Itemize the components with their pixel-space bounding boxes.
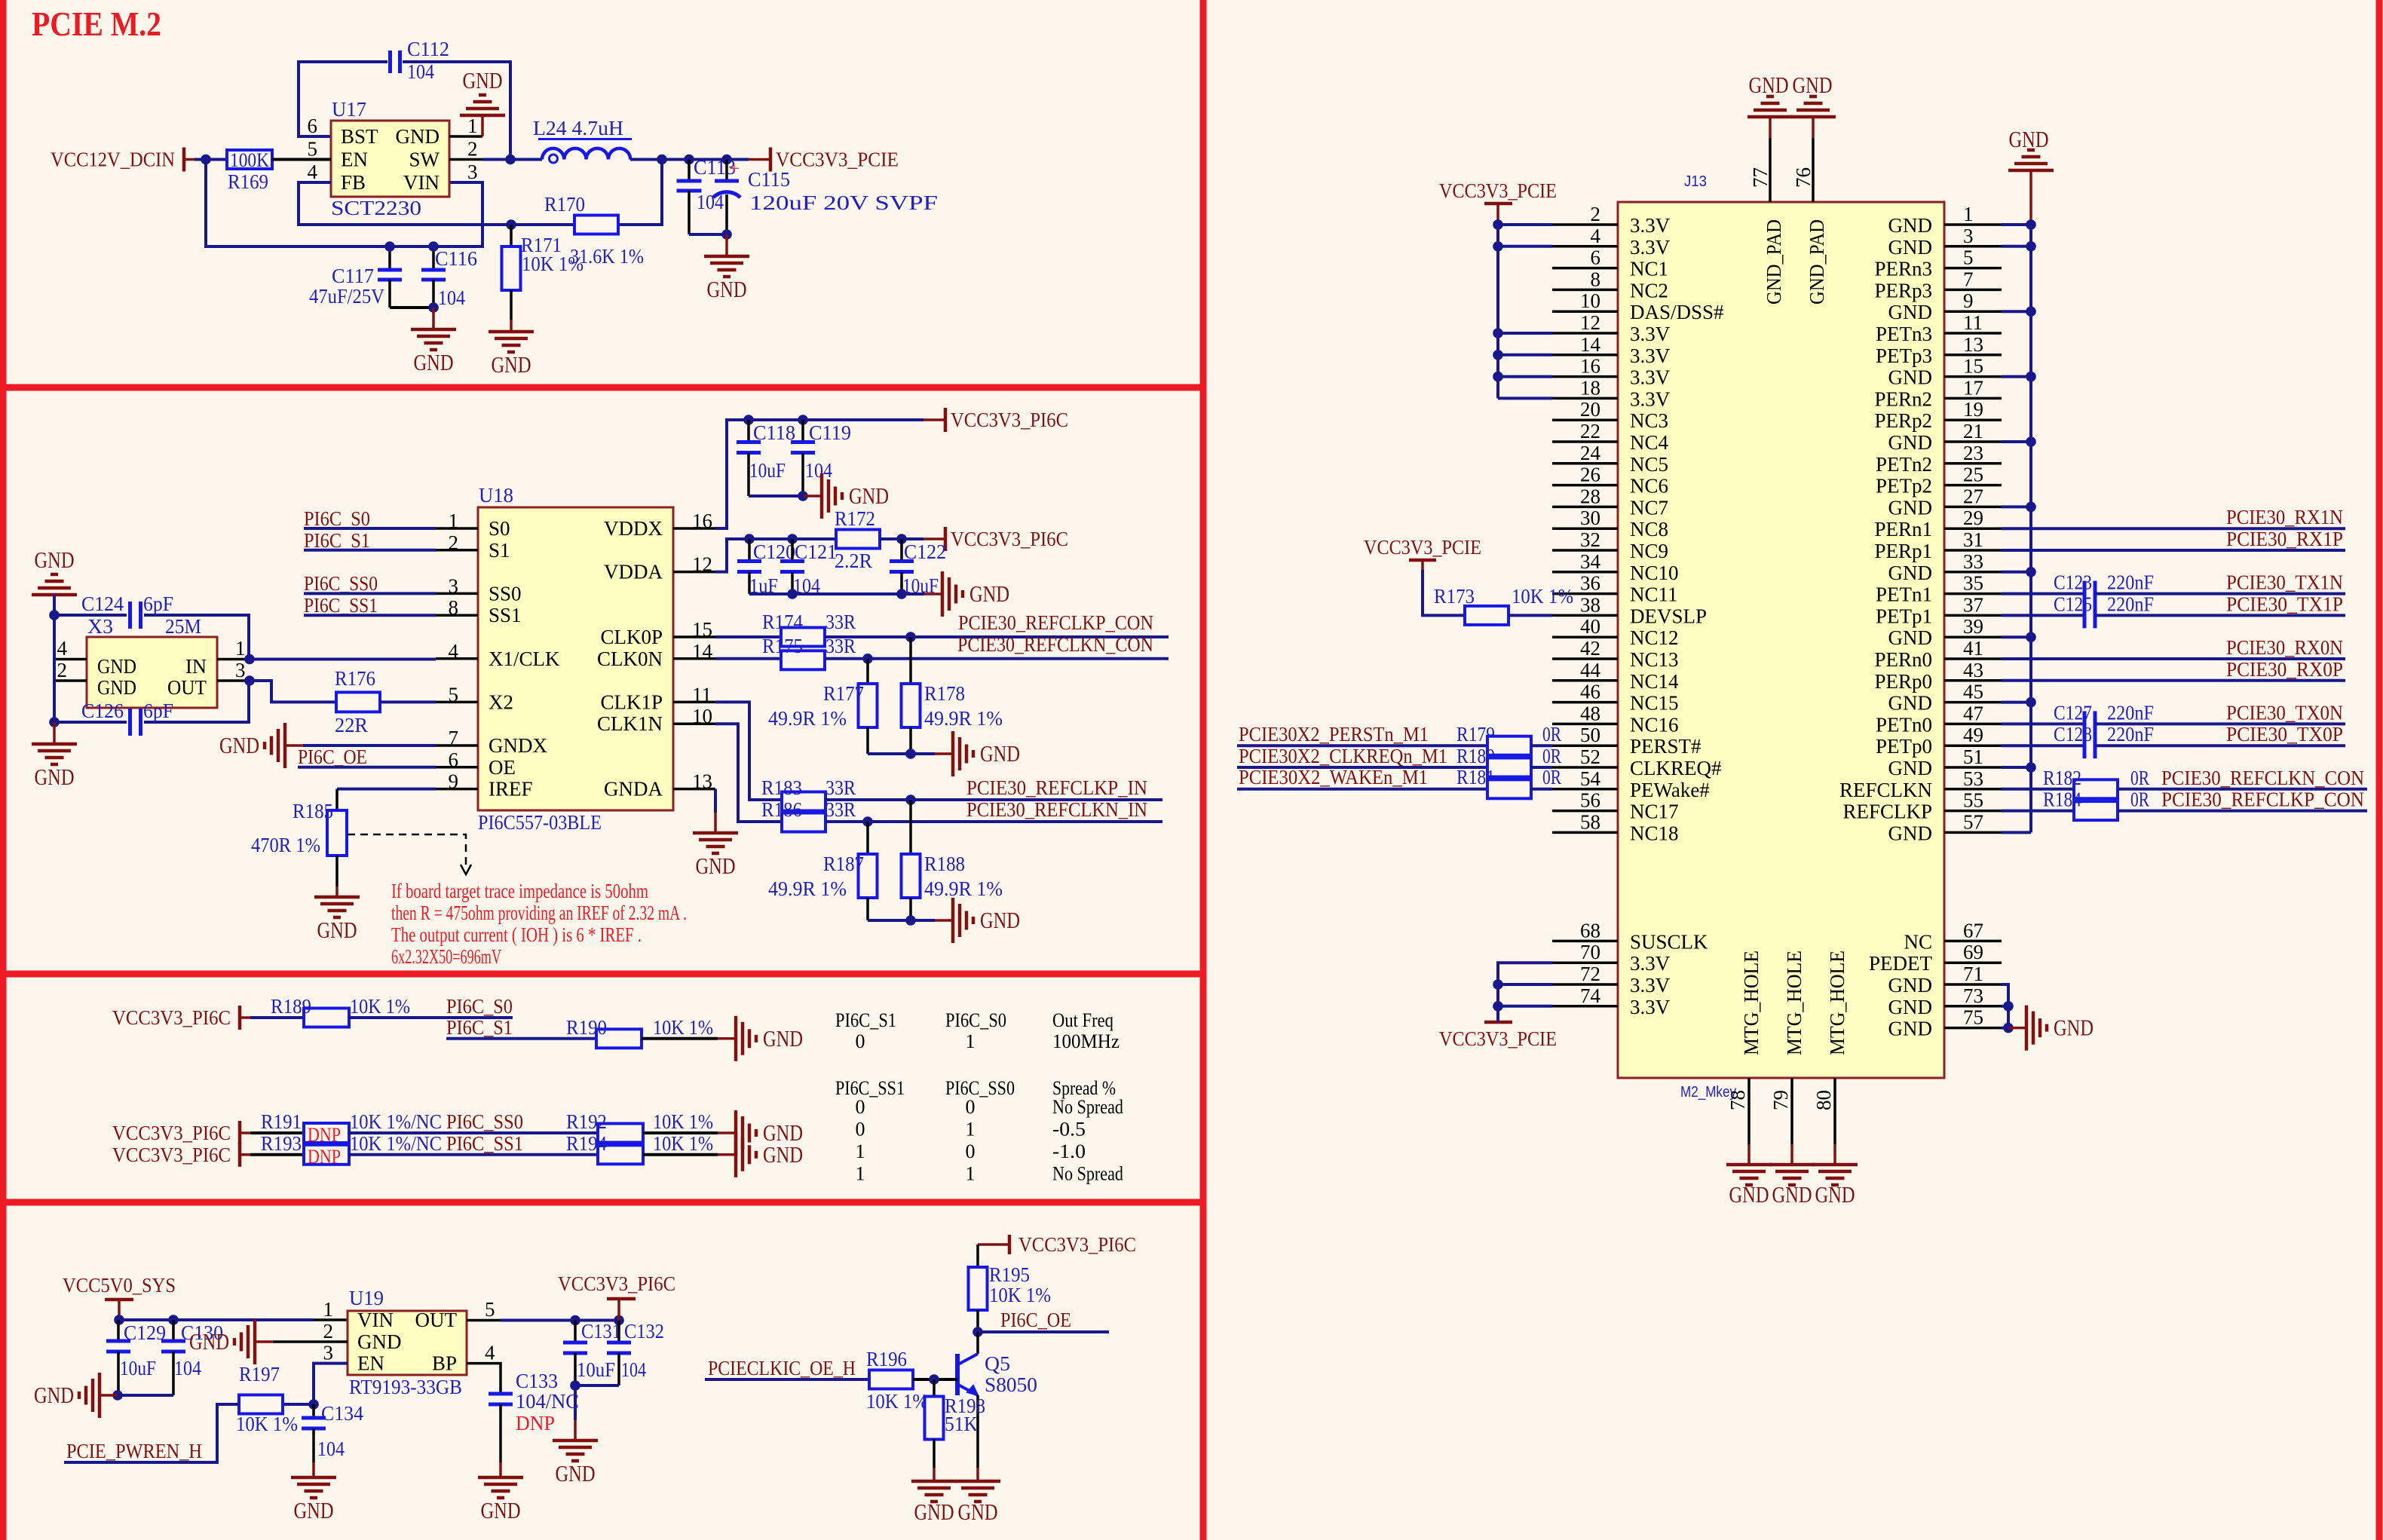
svg-text:R170: R170	[544, 193, 585, 216]
svg-text:C128: C128	[2054, 723, 2092, 746]
svg-text:15: 15	[692, 618, 712, 641]
wire 3.3V bus top	[1496, 225, 1499, 398]
svg-text:PERp0: PERp0	[1874, 670, 1932, 693]
wire gnd bus bottom right	[2002, 984, 2008, 1028]
svg-text:DEVSLP: DEVSLP	[1630, 605, 1707, 627]
svg-text:C119: C119	[809, 421, 851, 444]
wire OUT rail	[467, 1319, 501, 1322]
svg-text:FB: FB	[341, 171, 366, 194]
net PCIE30_RX0N	[2002, 657, 2345, 660]
wire X1 to U18	[250, 658, 436, 661]
svg-text:1: 1	[966, 1163, 976, 1185]
svg-text:NC11: NC11	[1630, 583, 1678, 606]
svg-text:104: 104	[174, 1357, 201, 1379]
svg-text:14: 14	[692, 640, 713, 663]
svg-text:C115: C115	[748, 168, 790, 191]
node FB divider	[506, 219, 516, 230]
svg-text:7: 7	[1963, 268, 1974, 290]
svg-text:10: 10	[1580, 289, 1600, 312]
wire filter gnd rail	[749, 592, 924, 595]
svg-text:3: 3	[449, 574, 459, 597]
power port VCC3V3_PI6C at VDDA	[923, 537, 945, 540]
svg-text:GND: GND	[707, 276, 747, 302]
svg-text:NC: NC	[1904, 930, 1932, 953]
svg-text:1: 1	[966, 1030, 976, 1052]
resistor R191 DNP	[304, 1123, 349, 1143]
svg-text:10uF: 10uF	[749, 459, 786, 482]
svg-text:6pF: 6pF	[143, 700, 173, 722]
svg-text:33R: 33R	[825, 776, 856, 799]
svg-text:48: 48	[1580, 702, 1600, 724]
svg-text:NC4: NC4	[1630, 431, 1669, 454]
svg-text:NC14: NC14	[1630, 670, 1679, 693]
svg-text:56: 56	[1580, 789, 1600, 812]
svg-text:4: 4	[57, 637, 68, 660]
svg-text:OUT: OUT	[167, 676, 207, 699]
svg-text:0R: 0R	[2130, 767, 2149, 789]
wire CLK1P to R183	[715, 702, 783, 800]
svg-text:R192: R192	[566, 1110, 607, 1133]
svg-text:6: 6	[308, 115, 318, 137]
svg-text:C129: C129	[124, 1321, 166, 1344]
svg-text:PI6C557-03BLE: PI6C557-03BLE	[478, 811, 602, 834]
ground below R198	[933, 1468, 936, 1481]
svg-text:2.2R: 2.2R	[835, 550, 872, 572]
resistor R182 net PCIE30_REFCLKN_CON	[2002, 788, 2074, 791]
svg-text:76: 76	[1792, 167, 1815, 188]
node PI6C_OE	[972, 1327, 983, 1337]
svg-text:37: 37	[1963, 593, 1983, 616]
svg-text:PI6C_S1: PI6C_S1	[304, 529, 370, 552]
svg-text:16: 16	[692, 510, 712, 532]
svg-text:6: 6	[1591, 246, 1601, 269]
capacitor C116	[432, 246, 435, 270]
svg-text:3.3V: 3.3V	[1630, 236, 1671, 259]
capacitor C126	[54, 721, 127, 724]
svg-text:R183: R183	[761, 776, 802, 799]
svg-text:NC9: NC9	[1630, 540, 1668, 562]
svg-text:R187: R187	[823, 853, 864, 875]
svg-text:GND: GND	[1888, 366, 1933, 389]
wire L24 to VCC3V3_PCIE	[630, 158, 749, 161]
capacitor C128 net PCIE30_TX0P	[2002, 744, 2084, 747]
capacitor C112	[388, 51, 392, 73]
svg-text:1: 1	[235, 637, 246, 660]
svg-text:PCIE30_TX1N: PCIE30_TX1N	[2226, 571, 2343, 594]
svg-text:R175: R175	[762, 635, 803, 657]
svg-text:10K 1%: 10K 1%	[989, 1284, 1051, 1306]
connector J13 M2_Mkey body	[1618, 202, 1944, 1078]
svg-text:4: 4	[449, 640, 459, 663]
svg-text:VDDA: VDDA	[604, 561, 663, 583]
svg-text:C126: C126	[81, 700, 124, 722]
svg-text:C131: C131	[581, 1320, 621, 1343]
svg-text:10K 1%: 10K 1%	[236, 1413, 298, 1435]
svg-text:VCC3V3_PI6C: VCC3V3_PI6C	[112, 1006, 231, 1029]
svg-text:8: 8	[1591, 268, 1601, 290]
svg-text:S8050: S8050	[985, 1373, 1037, 1396]
svg-text:S0: S0	[489, 517, 510, 540]
svg-text:X2: X2	[489, 690, 513, 713]
svg-text:NC8: NC8	[1630, 518, 1668, 540]
svg-text:3.3V: 3.3V	[1630, 952, 1671, 975]
resistor R190	[596, 1029, 642, 1048]
wire output sense drop	[617, 160, 662, 225]
svg-text:GND: GND	[696, 853, 736, 879]
svg-text:GND: GND	[97, 655, 136, 678]
svg-text:EN: EN	[357, 1352, 384, 1375]
svg-text:6pF: 6pF	[143, 592, 173, 615]
svg-text:35: 35	[1963, 572, 1983, 595]
ground below crystal	[53, 722, 56, 744]
svg-text:GND: GND	[34, 1382, 74, 1408]
svg-text:5: 5	[1963, 246, 1974, 269]
svg-text:The output current ( IOH ) is: The output current ( IOH ) is 6 * IREF .	[391, 923, 642, 946]
svg-text:104: 104	[317, 1437, 345, 1460]
svg-text:73: 73	[1963, 984, 1983, 1007]
svg-text:PI6C_S1: PI6C_S1	[835, 1009, 896, 1031]
svg-text:PI6C_SS0: PI6C_SS0	[304, 572, 378, 595]
svg-text:DAS/DSS#: DAS/DSS#	[1630, 301, 1724, 323]
svg-text:VCC3V3_PI6C: VCC3V3_PI6C	[1018, 1233, 1136, 1256]
wire to R191	[250, 1131, 304, 1134]
svg-text:33R: 33R	[825, 635, 856, 657]
svg-text:IN: IN	[185, 655, 207, 678]
svg-text:PEWake#: PEWake#	[1630, 779, 1710, 801]
ground below C115	[725, 234, 728, 256]
svg-text:CLKREQ#: CLKREQ#	[1630, 757, 1722, 779]
svg-text:VCC3V3_PCIE: VCC3V3_PCIE	[1439, 1027, 1557, 1050]
svg-text:51K: 51K	[945, 1413, 978, 1435]
ground below C134	[312, 1462, 315, 1477]
svg-text:3: 3	[467, 161, 478, 183]
svg-text:X1/CLK: X1/CLK	[489, 648, 560, 670]
svg-text:10K 1%: 10K 1%	[653, 1110, 713, 1133]
svg-text:PETn2: PETn2	[1876, 453, 1932, 476]
svg-text:PERn3: PERn3	[1874, 258, 1932, 280]
capacitor C124	[54, 614, 127, 617]
ground below R171	[510, 320, 513, 332]
svg-text:39: 39	[1963, 615, 1983, 638]
capacitor C122	[900, 539, 903, 561]
svg-text:13: 13	[1963, 333, 1983, 356]
svg-text:2: 2	[57, 659, 68, 681]
svg-text:33R: 33R	[825, 798, 856, 821]
wire crystal left vertical	[53, 595, 56, 722]
ground right of R192	[718, 1131, 736, 1134]
svg-text:-1.0: -1.0	[1052, 1140, 1086, 1162]
IC U18 PI6C557-03BLE	[478, 507, 673, 810]
svg-text:12: 12	[1580, 311, 1600, 334]
svg-text:22: 22	[1580, 420, 1600, 442]
svg-text:PCIE30_RX1P: PCIE30_RX1P	[2226, 528, 2343, 550]
svg-text:42: 42	[1580, 637, 1600, 660]
capacitor C134	[312, 1404, 315, 1418]
svg-text:GND: GND	[1888, 496, 1933, 519]
svg-text:GND: GND	[1888, 301, 1933, 323]
svg-text:PETp3: PETp3	[1876, 344, 1932, 367]
ground right of C118 rail	[804, 494, 822, 498]
svg-text:17: 17	[1963, 376, 1983, 399]
svg-text:PI6C_S0: PI6C_S0	[945, 1009, 1006, 1031]
svg-text:36: 36	[1580, 572, 1600, 595]
svg-text:10K 1%: 10K 1%	[653, 1016, 713, 1039]
svg-text:GND: GND	[219, 732, 259, 758]
svg-text:74: 74	[1580, 984, 1601, 1007]
svg-text:NC5: NC5	[1630, 453, 1668, 476]
svg-text:21: 21	[1963, 420, 1983, 442]
svg-text:2: 2	[1591, 203, 1601, 225]
wire X3 pin1 stub	[217, 658, 250, 661]
wire caps bottom rail	[390, 306, 433, 309]
svg-text:0R: 0R	[1542, 766, 1561, 788]
svg-text:34: 34	[1580, 550, 1601, 573]
wire BP to C133	[467, 1364, 501, 1394]
svg-text:PETn0: PETn0	[1876, 713, 1932, 736]
capacitor C117	[388, 246, 391, 270]
resistor R195	[969, 1267, 988, 1310]
svg-text:BP: BP	[432, 1352, 457, 1375]
J13 left pins 68-74	[1552, 940, 1618, 943]
J13 bottom pins 78 79 80 MTG_HOLE	[1747, 1078, 1750, 1144]
svg-text:0: 0	[966, 1096, 976, 1118]
capacitor C125 net PCIE30_TX1P	[2002, 614, 2084, 617]
svg-text:4: 4	[1591, 225, 1601, 247]
svg-text:68: 68	[1580, 919, 1600, 941]
svg-text:NC17: NC17	[1630, 801, 1679, 823]
svg-text:47: 47	[1963, 702, 1983, 724]
svg-text:U18: U18	[479, 484, 513, 507]
svg-text:GND: GND	[414, 349, 454, 375]
svg-text:REFCLKN: REFCLKN	[1839, 779, 1932, 801]
svg-text:GND: GND	[556, 1460, 596, 1486]
ground below C131 C132	[574, 1385, 577, 1420]
resistor R186	[782, 813, 825, 832]
svg-text:GNDA: GNDA	[604, 778, 663, 801]
svg-text:0R: 0R	[1542, 723, 1561, 746]
svg-text:GND: GND	[763, 1141, 803, 1168]
svg-text:49.9R 1%: 49.9R 1%	[768, 707, 847, 730]
svg-text:VCC3V3_PI6C: VCC3V3_PI6C	[951, 528, 1068, 550]
wire caps bottom sec4	[118, 1394, 173, 1397]
svg-text:10K 1%: 10K 1%	[1512, 585, 1573, 608]
svg-text:3.3V: 3.3V	[1630, 366, 1671, 389]
resistor R177	[866, 659, 869, 684]
svg-text:VCC12V_DCIN: VCC12V_DCIN	[51, 148, 175, 171]
svg-text:R176: R176	[335, 667, 375, 690]
svg-text:6x2.32X50=696mV: 6x2.32X50=696mV	[391, 945, 501, 968]
svg-text:MTG_HOLE: MTG_HOLE	[1740, 951, 1763, 1055]
svg-text:PERp2: PERp2	[1874, 409, 1932, 432]
svg-text:VCC5V0_SYS: VCC5V0_SYS	[63, 1274, 176, 1297]
svg-text:11: 11	[1963, 311, 1983, 334]
svg-text:REFCLKP: REFCLKP	[1842, 801, 1932, 823]
svg-text:13: 13	[692, 770, 712, 793]
wire C112 branch pin6	[299, 62, 387, 136]
J13 left pins 2-58	[1552, 223, 1618, 226]
svg-text:120uF 20V SVPF: 120uF 20V SVPF	[749, 191, 938, 214]
svg-text:GND_PAD: GND_PAD	[1806, 219, 1828, 305]
svg-text:2: 2	[323, 1320, 334, 1343]
svg-text:DNP: DNP	[516, 1412, 555, 1434]
svg-text:then R = 475ohm providing an I: then R = 475ohm providing an IREF of 2.3…	[391, 902, 687, 924]
svg-text:PI6C_S1: PI6C_S1	[446, 1016, 513, 1039]
svg-text:70: 70	[1580, 941, 1600, 963]
svg-text:3.3V: 3.3V	[1630, 344, 1671, 367]
svg-text:12: 12	[692, 553, 712, 576]
svg-text:1: 1	[966, 1119, 976, 1140]
svg-text:100K: 100K	[230, 149, 269, 171]
svg-text:VCC3V3_PI6C: VCC3V3_PI6C	[112, 1122, 231, 1144]
svg-text:SS0: SS0	[489, 582, 522, 605]
wire 5V rail	[119, 1318, 314, 1321]
svg-text:51: 51	[1963, 746, 1983, 768]
svg-text:104: 104	[438, 286, 465, 309]
ground below C116 C117	[432, 308, 435, 329]
J13 right pins 67-75	[1944, 940, 2002, 943]
dashed note pointer	[348, 834, 466, 868]
svg-text:PCIE30_RX1N: PCIE30_RX1N	[2226, 506, 2343, 528]
svg-text:GND: GND	[1749, 72, 1789, 98]
svg-text:VCC3V3_PCIE: VCC3V3_PCIE	[776, 148, 899, 171]
svg-text:57: 57	[1963, 810, 1983, 833]
svg-text:CLK1N: CLK1N	[597, 712, 663, 735]
wire VCC12V to R169	[194, 158, 227, 161]
svg-text:49.9R 1%: 49.9R 1%	[768, 877, 847, 900]
power port VCC3V3_PCIE top	[1484, 202, 1512, 206]
svg-text:PCIE30_TX0N: PCIE30_TX0N	[2226, 701, 2343, 724]
svg-text:DNP: DNP	[308, 1124, 341, 1146]
power port VCC3V3_PCIE at R173	[1409, 559, 1436, 562]
svg-text:R190: R190	[566, 1016, 607, 1039]
capacitor C115 electrolytic	[725, 160, 728, 182]
node C115 top	[721, 155, 732, 165]
wire pin5 stub	[298, 158, 331, 161]
svg-text:MTG_HOLE: MTG_HOLE	[1826, 951, 1849, 1055]
svg-text:GND: GND	[2054, 1015, 2094, 1041]
capacitor C129	[117, 1320, 120, 1341]
svg-text:GND: GND	[396, 125, 440, 148]
power port VCC5V0_SYS	[118, 1300, 121, 1320]
svg-text:BST: BST	[341, 125, 378, 148]
svg-text:GND: GND	[294, 1497, 334, 1523]
svg-text:GNDX: GNDX	[489, 734, 547, 757]
svg-text:6: 6	[449, 749, 459, 771]
wire C131 C132 bottom	[575, 1384, 619, 1387]
ground above pin76	[1812, 117, 1815, 138]
svg-text:PERn2: PERn2	[1874, 387, 1932, 410]
node C113 top	[684, 155, 694, 165]
IC U17 SCT2230	[331, 121, 449, 197]
ground right of R194	[718, 1153, 736, 1156]
wire to R189	[250, 1016, 304, 1019]
svg-text:GND: GND	[1888, 996, 1933, 1018]
svg-text:C122: C122	[904, 540, 946, 563]
power port VCC3V3_PI6C row SS1	[238, 1143, 242, 1167]
resistor R172	[836, 530, 880, 549]
svg-text:GND: GND	[97, 676, 136, 699]
capacitor C119	[801, 420, 804, 442]
capacitor C120	[748, 539, 751, 561]
resistor R194	[598, 1145, 643, 1164]
svg-text:R178: R178	[924, 682, 965, 705]
svg-text:25: 25	[1963, 464, 1983, 486]
power port VCC12V_DCIN	[182, 148, 186, 172]
svg-text:55: 55	[1963, 789, 1983, 812]
svg-text:5: 5	[308, 138, 318, 161]
svg-text:220nF: 220nF	[2107, 701, 2154, 724]
wire CLK0N to R175	[715, 657, 781, 660]
resistor R173	[1465, 606, 1509, 625]
ground right of R190	[718, 1037, 736, 1040]
svg-text:GND: GND	[980, 740, 1020, 767]
svg-text:R177: R177	[823, 682, 864, 705]
svg-text:J13: J13	[1684, 173, 1707, 190]
wire X3 pin3 stub	[217, 679, 250, 682]
svg-text:NC2: NC2	[1630, 279, 1668, 302]
svg-text:GND: GND	[980, 907, 1020, 933]
ground right of filter rail	[924, 592, 942, 595]
svg-text:VDDX: VDDX	[604, 517, 663, 540]
svg-text:49: 49	[1963, 724, 1983, 746]
svg-text:R174: R174	[762, 611, 803, 633]
power port VCC3V3_PCIE	[749, 158, 770, 161]
wire terminators2 gnd	[868, 919, 935, 922]
J13 top pins 77 76 GND_PAD	[1769, 138, 1772, 202]
svg-text:PETn1: PETn1	[1876, 583, 1932, 606]
svg-text:16: 16	[1580, 355, 1600, 378]
svg-text:7: 7	[449, 727, 459, 749]
svg-text:44: 44	[1580, 659, 1601, 681]
svg-text:50: 50	[1580, 724, 1600, 746]
svg-text:0: 0	[856, 1119, 865, 1140]
resistor R170	[574, 216, 618, 234]
capacitor C123 net PCIE30_TX1N	[2002, 592, 2084, 595]
resistor R189	[304, 1009, 349, 1027]
svg-text:9: 9	[1963, 289, 1974, 312]
resistor R175	[781, 651, 825, 669]
svg-text:PI6C_SS1: PI6C_SS1	[446, 1132, 523, 1155]
wire R175 to REFCLKN_CON	[825, 657, 1169, 660]
svg-text:3.3V: 3.3V	[1630, 214, 1671, 237]
wire GNDA down	[714, 789, 717, 813]
svg-text:R194: R194	[566, 1132, 607, 1155]
svg-text:PERp3: PERp3	[1874, 279, 1932, 302]
capacitor C131	[574, 1321, 577, 1343]
svg-text:R188: R188	[924, 853, 965, 875]
svg-text:GND: GND	[1888, 974, 1933, 997]
svg-text:2: 2	[467, 138, 478, 161]
svg-text:NC7: NC7	[1630, 496, 1668, 519]
svg-text:58: 58	[1580, 810, 1600, 833]
svg-text:U19: U19	[349, 1287, 384, 1309]
svg-text:PCIE30X2_PERSTn_M1: PCIE30X2_PERSTn_M1	[1239, 723, 1429, 746]
svg-text:1: 1	[1963, 203, 1974, 225]
svg-text:1: 1	[856, 1163, 865, 1185]
svg-text:NC12: NC12	[1630, 626, 1679, 649]
wire VDDX to rail	[715, 420, 923, 528]
svg-text:14: 14	[1580, 333, 1601, 356]
ground at U19 pin2	[273, 1340, 348, 1343]
wire R197 to PCIE_PWREN_H	[64, 1404, 239, 1462]
svg-text:RT9193-33GB: RT9193-33GB	[349, 1376, 462, 1398]
svg-text:SCT2230: SCT2230	[331, 197, 421, 219]
svg-text:29: 29	[1963, 507, 1983, 529]
net PCIE30_RX1N	[2002, 527, 2345, 530]
wire CLK1N to R186	[715, 724, 783, 822]
svg-text:28: 28	[1580, 485, 1600, 507]
ground right of R177 R178	[935, 752, 953, 755]
